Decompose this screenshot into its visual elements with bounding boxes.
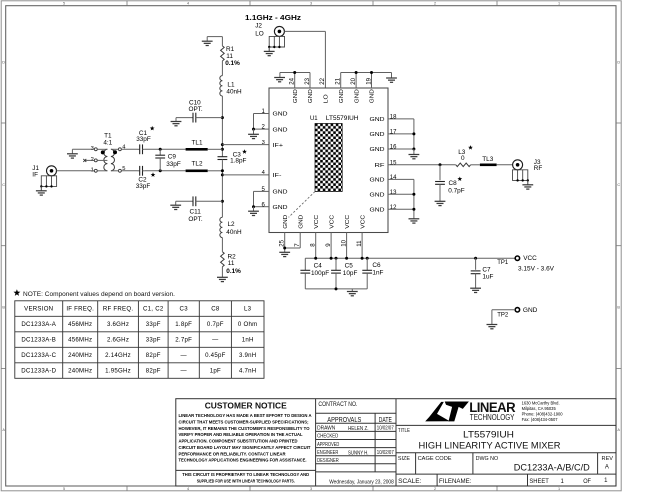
- svg-text:GND: GND: [273, 127, 288, 133]
- svg-text:10/02/07: 10/02/07: [377, 426, 394, 432]
- wire C2 to C3 (IF- rail) with TL2: [145, 170, 186, 172]
- svg-text:3: 3: [310, 2, 312, 6]
- svg-text:0.1%: 0.1%: [225, 60, 240, 67]
- svg-text:CONTRACT NO.: CONTRACT NO.: [318, 402, 357, 408]
- ground R1 top: [202, 41, 213, 45]
- transmission line TL3: [480, 164, 497, 167]
- svg-text:82pF: 82pF: [146, 352, 161, 359]
- U1 top pin numbers: [289, 77, 296, 84]
- svg-text:2: 2: [434, 487, 436, 491]
- node C11 junction: [221, 200, 224, 203]
- svg-text:GND: GND: [370, 207, 385, 213]
- svg-text:Phone: (408)432-1900: Phone: (408)432-1900: [522, 411, 564, 416]
- wire TP2 to ground: [492, 309, 515, 311]
- svg-text:33pF: 33pF: [136, 183, 151, 190]
- svg-text:TECHNOLOGY: TECHNOLOGY: [470, 413, 515, 422]
- wire TL3 to J3: [497, 164, 513, 166]
- svg-text:1: 1: [558, 487, 560, 491]
- U1 bottom pin stubs: [284, 233, 286, 253]
- U1 pin 2 wire: [254, 128, 270, 130]
- node IF+ pin wire junction: [221, 143, 224, 146]
- svg-text:C1, C2: C1, C2: [143, 306, 164, 313]
- svg-text:L3: L3: [244, 306, 252, 313]
- svg-text:24: 24: [289, 77, 296, 84]
- svg-text:1630 McCarthy Blvd.: 1630 McCarthy Blvd.: [522, 401, 560, 406]
- svg-text:0.45pF: 0.45pF: [205, 352, 225, 359]
- svg-text:100pF: 100pF: [311, 270, 329, 277]
- wire R1 to L1: [221, 61, 223, 76]
- ground J1 shield: [36, 191, 47, 195]
- svg-text:VERSION: VERSION: [24, 306, 53, 313]
- wire VCC bus: [305, 257, 514, 259]
- svg-text:3.15V - 3.6V: 3.15V - 3.6V: [518, 265, 555, 272]
- U1 bottom pin numbers: [279, 239, 286, 246]
- svg-text:B: B: [617, 306, 620, 310]
- svg-text:GND: GND: [370, 117, 385, 123]
- svg-text:SIZE: SIZE: [398, 456, 410, 462]
- svg-text:GND: GND: [370, 89, 376, 103]
- connector J3 (RF): [513, 160, 523, 170]
- svg-text:3.9nH: 3.9nH: [239, 352, 257, 359]
- ground top-right bus: [386, 78, 397, 82]
- svg-text:DC1233A-D: DC1233A-D: [21, 368, 56, 375]
- svg-text:4: 4: [187, 2, 189, 6]
- U1 pins 14-13-12 wires to ground: [388, 178, 414, 180]
- svg-text:TL1: TL1: [191, 140, 202, 147]
- svg-text:456MHz: 456MHz: [68, 337, 92, 344]
- node C9 bottom: [159, 169, 162, 172]
- svg-text:IF: IF: [32, 172, 38, 179]
- svg-text:1.95GHz: 1.95GHz: [105, 368, 131, 375]
- svg-text:1.8pF: 1.8pF: [175, 321, 192, 328]
- svg-text:33pF: 33pF: [146, 337, 161, 344]
- svg-text:GND: GND: [370, 178, 385, 184]
- ground decoupling bus: [347, 292, 358, 296]
- svg-text:TECHNOLOGY APPLICATIONS ENGINE: TECHNOLOGY APPLICATIONS ENGINEERING FOR …: [179, 458, 308, 464]
- ground top-left bus: [274, 78, 285, 82]
- U1 pins 18-17-16 wires to ground: [388, 118, 414, 120]
- ground C7: [470, 288, 481, 292]
- svg-text:CIRCUIT THAT MEETS CUSTOMER-SU: CIRCUIT THAT MEETS CUSTOMER-SUPPLIED SPE…: [179, 420, 309, 426]
- svg-text:HIGH LINEARITY ACTIVE MIXER: HIGH LINEARITY ACTIVE MIXER: [419, 439, 561, 450]
- svg-text:GND: GND: [370, 147, 385, 153]
- svg-text:CIRCUIT BOARD LAYOUT MAY SIGNI: CIRCUIT BOARD LAYOUT MAY SIGNIFICANTLY A…: [179, 445, 311, 451]
- svg-text:TP1: TP1: [497, 259, 508, 266]
- svg-text:4:1: 4:1: [103, 139, 112, 146]
- svg-text:15: 15: [390, 160, 397, 166]
- test point TP1: [515, 256, 519, 260]
- wire RF pin15 to L3: [388, 164, 456, 166]
- T1 pin circles: [94, 148, 121, 172]
- svg-text:12: 12: [390, 205, 397, 211]
- svg-text:DATE: DATE: [379, 417, 392, 424]
- node pins 1-2 ground junction: [252, 128, 255, 131]
- svg-text:DWG NO: DWG NO: [476, 456, 499, 462]
- svg-text:5: 5: [63, 487, 65, 491]
- capacitor C5: [335, 258, 337, 270]
- svg-text:0.1%: 0.1%: [226, 268, 241, 275]
- svg-text:LT5579IUH: LT5579IUH: [326, 116, 359, 122]
- svg-text:DC1233A-A: DC1233A-A: [21, 321, 56, 328]
- wire T1 pin2 no-connect: [85, 159, 95, 161]
- svg-text:L2: L2: [228, 221, 236, 228]
- svg-text:J2: J2: [255, 22, 262, 29]
- connector J2 (LO): [274, 26, 284, 36]
- transformer T1 primary winding: [104, 149, 108, 171]
- svg-text:1nH: 1nH: [242, 337, 254, 344]
- ground C8: [435, 201, 446, 205]
- svg-text:C3: C3: [180, 306, 189, 313]
- node C10 junction: [221, 116, 224, 119]
- svg-text:DRAWN: DRAWN: [317, 426, 335, 432]
- svg-text:HELEN Z.: HELEN Z.: [348, 426, 369, 432]
- wire J1 to T1 pin1: [57, 170, 95, 172]
- svg-text:10/02/07: 10/02/07: [377, 450, 394, 456]
- svg-text:2.6GHz: 2.6GHz: [107, 337, 129, 344]
- svg-text:3: 3: [310, 487, 312, 491]
- svg-text:IF-: IF-: [273, 173, 282, 179]
- node IF- pin wire junction: [221, 173, 224, 176]
- svg-text:25: 25: [279, 239, 286, 246]
- svg-text:1.1GHz - 4GHz: 1.1GHz - 4GHz: [245, 13, 301, 22]
- svg-text:GND: GND: [370, 193, 385, 199]
- svg-text:Milpitas, CA 95035: Milpitas, CA 95035: [522, 406, 557, 411]
- svg-text:RF: RF: [375, 163, 386, 169]
- svg-text:40nH: 40nH: [226, 229, 242, 236]
- ground U1 pins 1-2: [248, 134, 259, 138]
- svg-text:GND: GND: [273, 112, 288, 118]
- svg-text:VCC: VCC: [360, 215, 366, 229]
- svg-text:RF FREQ.: RF FREQ.: [103, 306, 133, 313]
- svg-text:0.7pF: 0.7pF: [207, 321, 224, 328]
- U1 pin 5 wire: [254, 190, 270, 192]
- svg-text:14: 14: [390, 175, 397, 181]
- ground C11: [170, 205, 181, 209]
- svg-text:OPT.: OPT.: [189, 106, 203, 113]
- svg-text:VCC: VCC: [345, 215, 351, 229]
- svg-text:APPLICATION. COMPONENT SUBSTI: APPLICATION. COMPONENT SUBSTITUTION AND …: [179, 439, 298, 445]
- svg-text:11: 11: [228, 260, 235, 267]
- svg-text:GND: GND: [523, 307, 538, 314]
- wire T1 pin5 to C2: [121, 170, 137, 172]
- svg-text:C5: C5: [345, 263, 354, 270]
- wire J2 to pin22: [284, 30, 325, 32]
- svg-text:OPT.: OPT.: [188, 216, 202, 223]
- capacitor C7: [475, 258, 477, 270]
- svg-text:SCALE:: SCALE:: [398, 479, 422, 485]
- svg-text:4.7nH: 4.7nH: [239, 368, 257, 375]
- svg-text:DC1233A-B: DC1233A-B: [21, 337, 56, 344]
- svg-text:U1: U1: [310, 116, 318, 122]
- capacitor C2: [138, 170, 140, 172]
- ground C10: [171, 122, 182, 126]
- svg-text:VCC: VCC: [523, 255, 537, 262]
- ground J3 shield: [522, 185, 533, 189]
- svg-text:OF: OF: [583, 479, 591, 485]
- wire C3 bottom to L2: [221, 160, 223, 217]
- wire T1 pin4 to C1: [121, 148, 137, 150]
- svg-text:CUSTOMER NOTICE: CUSTOMER NOTICE: [205, 400, 287, 410]
- capacitor C3: [221, 155, 223, 157]
- connector J1 (IF): [47, 166, 57, 176]
- wire T1 pin3 to ground: [72, 148, 94, 150]
- svg-text:21: 21: [335, 77, 342, 84]
- svg-text:1uF: 1uF: [482, 273, 493, 280]
- svg-text:FILENAME:: FILENAME:: [439, 479, 472, 485]
- ground J2 shield: [264, 51, 275, 55]
- svg-text:APPROVALS: APPROVALS: [327, 417, 361, 424]
- wire L1 down to C3: [221, 96, 223, 155]
- svg-text:1.8pF: 1.8pF: [230, 158, 246, 165]
- capacitor C1: [138, 148, 140, 150]
- svg-text:THIS CIRCUIT IS PROPRIETARY TO: THIS CIRCUIT IS PROPRIETARY TO LINEAR TE…: [182, 472, 309, 478]
- svg-text:IF+: IF+: [273, 143, 284, 149]
- svg-text:APPROVED: APPROVED: [317, 442, 339, 448]
- svg-text:LO: LO: [255, 30, 264, 37]
- node C8 junction: [439, 163, 442, 166]
- wire L3 to TL3: [471, 164, 480, 166]
- svg-text:0: 0: [461, 155, 465, 162]
- T1 pin stubs: [97, 148, 107, 150]
- U1 pin 1 wire: [254, 113, 270, 115]
- ground U1 pins 18-16: [409, 155, 420, 159]
- svg-text:22: 22: [319, 77, 326, 84]
- note star: [13, 289, 20, 296]
- svg-text:GND: GND: [298, 215, 304, 229]
- inductor L1: [220, 76, 223, 96]
- capacitor C10: [176, 117, 193, 119]
- svg-text:GND: GND: [293, 89, 299, 103]
- T1 phase dots: [101, 150, 105, 154]
- svg-text:—: —: [212, 337, 219, 344]
- resistor R2: [221, 252, 225, 267]
- capacitor C9: [159, 149, 161, 155]
- U1 top pin stubs: [294, 73, 296, 89]
- svg-text:11: 11: [356, 240, 363, 247]
- svg-text:33pF: 33pF: [146, 321, 161, 328]
- U1 pin 6 wire: [254, 206, 270, 208]
- svg-text:18: 18: [390, 115, 397, 121]
- svg-text:R1: R1: [226, 46, 235, 53]
- svg-text:SUNNY H.: SUNNY H.: [348, 451, 369, 457]
- svg-text:VCC: VCC: [329, 215, 335, 229]
- ground T1 pin3: [67, 154, 78, 158]
- svg-text:A: A: [605, 465, 609, 471]
- svg-text:1pF: 1pF: [210, 368, 221, 375]
- svg-text:TP2: TP2: [497, 312, 508, 319]
- svg-text:2.7pF: 2.7pF: [175, 337, 192, 344]
- svg-text:C8: C8: [211, 306, 220, 313]
- svg-text:LO: LO: [324, 94, 330, 104]
- ground R2 bottom: [217, 277, 228, 281]
- svg-text:2.14GHz: 2.14GHz: [105, 352, 131, 359]
- resistor R1: [221, 46, 225, 61]
- svg-text:ENGINEER: ENGINEER: [317, 450, 338, 456]
- U1 exposed pad dashed leader: [289, 192, 315, 218]
- capacitor C11: [176, 200, 193, 202]
- title block outline: [176, 399, 616, 486]
- svg-text:82pF: 82pF: [146, 368, 161, 375]
- svg-text:GND: GND: [283, 215, 289, 229]
- svg-text:TITLE: TITLE: [398, 428, 410, 434]
- svg-text:2: 2: [434, 2, 436, 6]
- svg-text:VERIFY PROPER AND RELIABLE OPE: VERIFY PROPER AND RELIABLE OPERATION IN …: [179, 432, 303, 438]
- svg-text:TL2: TL2: [191, 161, 202, 168]
- svg-text:REV: REV: [602, 456, 614, 462]
- version table: [15, 301, 264, 379]
- wire R1 top to ground: [221, 37, 223, 46]
- svg-text:10: 10: [340, 239, 347, 246]
- node VCC bus junctions: [314, 257, 317, 260]
- svg-text:IF FREQ.: IF FREQ.: [66, 306, 94, 313]
- svg-text:GND: GND: [370, 132, 385, 138]
- svg-text:40nH: 40nH: [226, 88, 242, 95]
- node pins 5-6 ground junction: [252, 205, 255, 208]
- svg-text:17: 17: [390, 130, 397, 136]
- wire top-left ground bus (pins 24,23): [280, 72, 310, 74]
- svg-text:LINEAR TECHNOLOGY HAS MADE A B: LINEAR TECHNOLOGY HAS MADE A BEST EFFORT…: [179, 413, 312, 419]
- svg-text:RF: RF: [534, 165, 543, 172]
- svg-text:240MHz: 240MHz: [68, 368, 92, 375]
- svg-text:C8: C8: [449, 180, 458, 187]
- svg-text:NOTE: Component values depend: NOTE: Component values depend on board v…: [23, 291, 175, 298]
- capacitor C6: [366, 258, 368, 270]
- svg-text:20: 20: [350, 77, 357, 84]
- svg-text:Wednesday, January 23, 2008: Wednesday, January 23, 2008: [329, 480, 394, 486]
- svg-text:C11: C11: [190, 209, 202, 216]
- svg-text:240MHz: 240MHz: [68, 352, 92, 359]
- svg-text:VCC: VCC: [314, 215, 320, 229]
- node TL2 rail junction: [221, 169, 224, 172]
- svg-text:DC1233A-A/B/C/D: DC1233A-A/B/C/D: [514, 462, 590, 472]
- svg-text:10pF: 10pF: [343, 270, 358, 277]
- svg-text:Fax: (408)434-0507: Fax: (408)434-0507: [522, 417, 559, 422]
- inductor L2: [220, 217, 223, 237]
- svg-text:23: 23: [304, 77, 311, 84]
- svg-text:SUPPLIED FOR USE WITH LINEAR T: SUPPLIED FOR USE WITH LINEAR TECHNOLOGY …: [197, 478, 295, 484]
- resistor-style element L3: [456, 163, 471, 167]
- ground U1 pins 5-6: [248, 211, 259, 215]
- test point TP2: [515, 308, 519, 312]
- U1 top pin labels: [293, 89, 299, 103]
- node C9 top: [159, 148, 162, 151]
- svg-text:5: 5: [63, 2, 65, 6]
- U1 exposed pad (hatched die): [315, 124, 342, 192]
- svg-text:0 Ohm: 0 Ohm: [238, 321, 258, 328]
- svg-text:GND: GND: [273, 190, 288, 196]
- ground U1 pin 25: [279, 252, 290, 256]
- svg-text:D: D: [2, 61, 5, 65]
- transformer T1 secondary winding: [111, 149, 115, 171]
- svg-text:—: —: [181, 368, 188, 375]
- svg-text:1: 1: [558, 2, 560, 6]
- wire IF+ pin3: [222, 144, 269, 146]
- svg-text:C: C: [617, 183, 620, 187]
- svg-text:DESIGNER: DESIGNER: [317, 458, 339, 464]
- svg-text:16: 16: [390, 145, 397, 151]
- svg-text:PERFORMANCE OR RELIABILITY. C: PERFORMANCE OR RELIABILITY. CONTACT LINE…: [179, 451, 286, 457]
- ground TP2: [487, 325, 498, 329]
- svg-text:A: A: [617, 428, 620, 432]
- svg-text:HOWEVER, IT REMAINS THE CUSTOM: HOWEVER, IT REMAINS THE CUSTOMER'S RESPO…: [179, 426, 310, 432]
- svg-text:GND: GND: [308, 89, 314, 103]
- svg-text:456MHz: 456MHz: [68, 321, 92, 328]
- svg-text:DC1233A-C: DC1233A-C: [21, 352, 56, 359]
- wire C1 to C3 (IF+ rail) with TL1: [145, 148, 186, 150]
- Linear Technology logo glyph: [425, 402, 450, 422]
- wire ground bus below caps: [305, 288, 367, 290]
- svg-text:SHEET: SHEET: [529, 479, 549, 485]
- svg-text:TL3: TL3: [482, 156, 493, 163]
- op-amp/mixer IC U1 LT5579IUH body: [269, 88, 388, 233]
- svg-text:—: —: [181, 352, 188, 359]
- wire top-right ground bus (pins 21,20,19): [341, 72, 392, 74]
- svg-text:GND: GND: [273, 205, 288, 211]
- svg-text:D: D: [617, 61, 620, 65]
- svg-text:C4: C4: [314, 263, 323, 270]
- svg-text:33pF: 33pF: [166, 161, 181, 168]
- svg-text:CHECKED: CHECKED: [317, 434, 338, 440]
- svg-text:C6: C6: [372, 262, 381, 269]
- svg-text:19: 19: [365, 77, 372, 84]
- capacitor C8: [435, 182, 445, 185]
- ground U1 pins 14-12: [409, 219, 420, 223]
- svg-text:GND: GND: [339, 89, 345, 103]
- svg-text:C9: C9: [168, 154, 177, 161]
- svg-text:0.7pF: 0.7pF: [448, 188, 464, 195]
- svg-text:3: 3: [262, 140, 265, 146]
- node TL1 rail junction: [221, 148, 224, 151]
- U1 bottom pin labels: [283, 215, 289, 229]
- svg-text:33pF: 33pF: [136, 136, 151, 143]
- svg-text:3.6GHz: 3.6GHz: [107, 321, 129, 328]
- transmission line TL1: [186, 148, 208, 151]
- wire IF- pin4: [222, 174, 269, 176]
- svg-text:CAGE CODE: CAGE CODE: [418, 456, 452, 462]
- transmission line TL2: [186, 170, 208, 173]
- svg-text:4: 4: [187, 487, 189, 491]
- svg-text:GND: GND: [354, 89, 360, 103]
- svg-text:C: C: [2, 183, 5, 187]
- wire pin7 to pin25: [285, 247, 301, 249]
- svg-text:13: 13: [390, 190, 397, 196]
- svg-text:1nF: 1nF: [372, 270, 383, 277]
- capacitor C4: [304, 258, 306, 270]
